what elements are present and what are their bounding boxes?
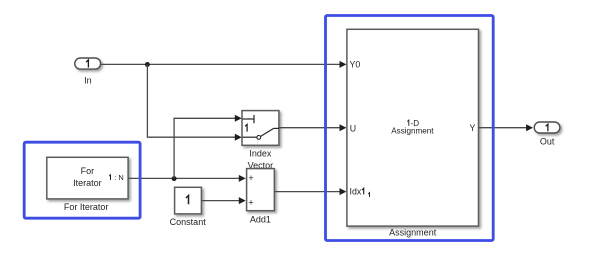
block body bbox=[175, 187, 202, 214]
data port number 1 bbox=[245, 124, 247, 131]
svg-text:For: For bbox=[81, 166, 95, 176]
svg-text:Assignment: Assignment bbox=[389, 227, 437, 237]
svg-text:Iterator: Iterator bbox=[73, 178, 102, 188]
outport oval bbox=[534, 122, 560, 133]
svg-text:Y: Y bbox=[470, 123, 476, 133]
wire Index Vector to Assignment pin U bbox=[279, 124, 347, 131]
Add1 block (sum) bbox=[247, 169, 275, 225]
wire In to Assignment pin Y0 bbox=[101, 61, 347, 68]
outport block Out bbox=[534, 122, 560, 147]
svg-text:: N: : N bbox=[114, 173, 123, 182]
wire For Iterator to Add1 input 1 bbox=[128, 175, 246, 182]
svg-text:Assignment: Assignment bbox=[391, 126, 434, 135]
block body bbox=[242, 111, 279, 146]
wire junction to Index Vector data input bbox=[147, 64, 241, 140]
Assignment block bbox=[347, 29, 479, 237]
junction node on iterator wire bbox=[172, 176, 177, 181]
svg-text:Constant: Constant bbox=[170, 217, 207, 227]
wire junction to Index Vector control input bbox=[174, 115, 242, 179]
svg-text:Y0: Y0 bbox=[350, 59, 361, 69]
value 1 bbox=[186, 196, 189, 205]
svg-text:For Iterator: For Iterator bbox=[64, 202, 109, 212]
svg-text:Idx: Idx bbox=[350, 186, 362, 196]
switch contact bbox=[243, 136, 257, 138]
block body bbox=[247, 169, 275, 211]
For Iterator block bbox=[47, 157, 128, 212]
wire Assignment Y to Out bbox=[479, 124, 534, 131]
block text 1-D Assignment bbox=[407, 120, 409, 126]
subsystem highlight box Assignment bbox=[326, 16, 494, 241]
svg-text:+: + bbox=[248, 197, 253, 207]
wire Add1 to Assignment pin Idx1 bbox=[275, 188, 347, 195]
block body bbox=[347, 29, 479, 226]
svg-text:Index: Index bbox=[249, 149, 272, 159]
Index Vector block (multiport switch) bbox=[242, 111, 279, 171]
inport block In bbox=[75, 58, 101, 85]
inport oval bbox=[75, 58, 101, 69]
Constant block bbox=[170, 187, 207, 227]
subsystem highlight box For Iterator bbox=[24, 142, 140, 218]
port number 1 bbox=[86, 60, 88, 68]
svg-text:Out: Out bbox=[540, 137, 555, 147]
control port marker bbox=[243, 118, 255, 120]
junction node on In wire bbox=[145, 62, 150, 67]
svg-text:U: U bbox=[350, 123, 356, 133]
svg-text:Add1: Add1 bbox=[250, 215, 271, 225]
svg-text:+: + bbox=[248, 173, 253, 183]
block body bbox=[47, 157, 128, 199]
svg-text:In: In bbox=[84, 75, 92, 85]
wire Constant to Add1 input 2 bbox=[201, 197, 245, 204]
output pin label 1 : N bbox=[109, 175, 110, 180]
port number 1 bbox=[546, 124, 548, 131]
